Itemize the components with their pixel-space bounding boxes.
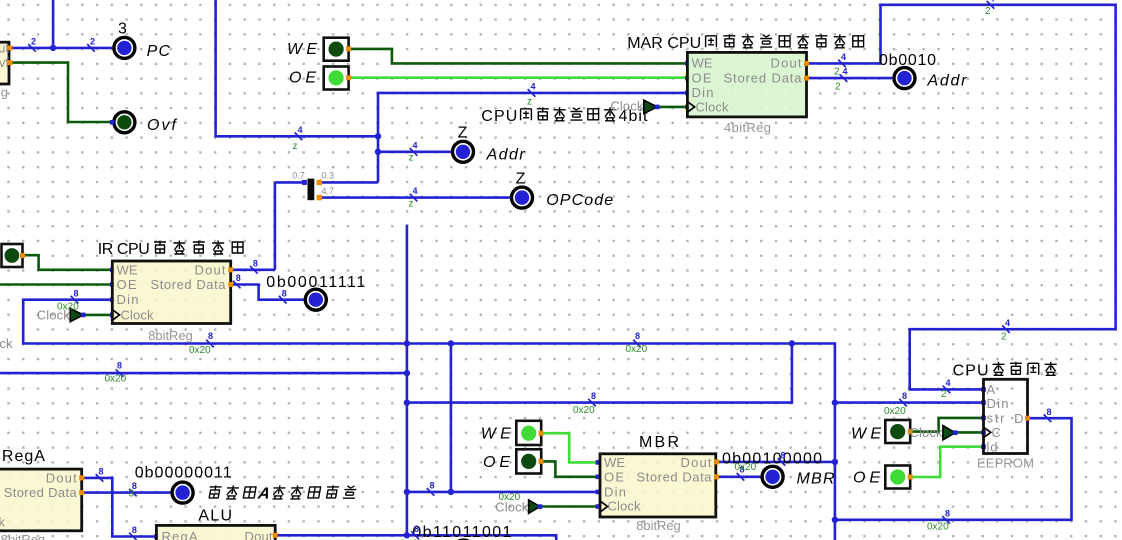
- register MBR: [600, 454, 719, 533]
- splitter: [292, 171, 334, 201]
- svg-text:2: 2: [985, 6, 991, 17]
- svg-text:8: 8: [98, 467, 103, 477]
- svg-text:8: 8: [117, 361, 122, 371]
- wire: splitter root: [275, 181, 305, 184]
- svg-text:2: 2: [1001, 332, 1007, 343]
- probe Ovf: [110, 112, 135, 133]
- probe OPCode: [512, 187, 533, 208]
- svg-text:Dout: Dout: [771, 56, 802, 71]
- svg-text:0b0010: 0b0010: [879, 52, 936, 69]
- svg-text:Dout: Dout: [245, 529, 273, 540]
- svg-text:0.3: 0.3: [322, 171, 335, 181]
- svg-text:Din: Din: [987, 396, 1009, 411]
- svg-text:4: 4: [297, 125, 302, 135]
- width marker 4 on MAR Dout wire: [834, 52, 846, 78]
- svg-text:Dout: Dout: [46, 470, 77, 485]
- node: junction at 406.9,491.9: [404, 489, 410, 495]
- button WE (EEPROM): [885, 420, 912, 443]
- width marker 4 on MAR Din wire: [527, 82, 536, 108]
- wire: PC register Dout to PC probe: [10, 47, 112, 50]
- svg-text:4: 4: [989, 0, 994, 3]
- svg-text:0x20: 0x20: [189, 345, 211, 356]
- register MAR: [687, 52, 809, 134]
- svg-text:MAR CPU: MAR CPU: [627, 35, 701, 52]
- svg-text:Clock: Clock: [0, 336, 13, 351]
- button WE (top, MAR): [324, 38, 351, 61]
- width marker 8 on MBR Din wire: [427, 481, 435, 496]
- svg-text:0x20: 0x20: [735, 462, 757, 473]
- svg-text:4: 4: [412, 186, 417, 196]
- wire: IR Stored Data to probe: [231, 285, 304, 300]
- svg-text:4.7: 4.7: [322, 186, 335, 196]
- svg-text:0x20: 0x20: [927, 522, 949, 533]
- width marker 8 on RegA SD wire: [129, 481, 137, 499]
- wire: MBR clock: [540, 505, 598, 508]
- wire: RegA Dout to ALU input: [82, 478, 157, 537]
- svg-text:g: g: [1, 85, 8, 100]
- svg-text:0x20: 0x20: [573, 405, 595, 416]
- svg-text:Addr: Addr: [486, 147, 526, 164]
- svg-text:8: 8: [635, 331, 640, 341]
- node: junction at 834.9,461.9: [832, 459, 838, 465]
- width marker 8 on EEPROM D wire: [1044, 407, 1052, 422]
- svg-text:CPU: CPU: [953, 363, 989, 380]
- svg-text:0b11011001: 0b11011001: [412, 524, 511, 540]
- probe MAR Addr output: [894, 68, 915, 89]
- svg-text:0x20: 0x20: [499, 492, 521, 503]
- width marker 8 on IR Dout wire: [250, 258, 258, 273]
- EEPROM block: [977, 379, 1034, 470]
- svg-text:8: 8: [208, 331, 213, 341]
- svg-text:Clock: Clock: [121, 307, 155, 322]
- button OE (EEPROM): [885, 466, 912, 489]
- svg-text:Clock: Clock: [0, 515, 6, 530]
- width marker 8 on IR SD wire: [233, 273, 241, 288]
- width marker 4 on y136 wire: [293, 125, 303, 152]
- probe MBR: [762, 466, 783, 487]
- width marker 4 on Addr wire: [409, 140, 418, 163]
- width marker 8 on bus y373: [105, 361, 127, 385]
- svg-text:Clock: Clock: [910, 425, 944, 440]
- clock (MAR): [610, 98, 659, 113]
- svg-text:8: 8: [902, 391, 907, 401]
- svg-text:Clock: Clock: [610, 98, 644, 113]
- wire: vertical into PC net from top edge: [52, 0, 55, 48]
- wire: IR Din loop to data bus H1: [23, 300, 835, 540]
- wire: MBR WE button: [541, 433, 598, 462]
- svg-text:3: 3: [129, 489, 135, 500]
- svg-text:2: 2: [941, 389, 947, 400]
- svg-text:ALU: ALU: [198, 508, 232, 525]
- wire: EEPROM WE button to str: [910, 418, 983, 432]
- svg-text:EEPROM: EEPROM: [977, 456, 1034, 471]
- probe IR output: [305, 289, 326, 310]
- svg-text:z: z: [409, 153, 414, 164]
- svg-text:PC: PC: [147, 43, 171, 60]
- wire: MBR Stored Data to probe: [717, 475, 761, 478]
- label: RegA test output (CJK italic): [207, 485, 357, 503]
- svg-text:WE: WE: [117, 262, 138, 277]
- label: EEPROM title: [953, 362, 1057, 380]
- svg-text:MBR: MBR: [797, 471, 835, 488]
- register RegA (partial at left edge): [0, 469, 84, 540]
- svg-text:IR CPU: IR CPU: [98, 241, 150, 258]
- svg-text:0b00000011: 0b00000011: [135, 465, 232, 482]
- svg-text:8: 8: [414, 524, 419, 534]
- svg-text:2: 2: [31, 37, 36, 47]
- node: junction at 378,136.3: [375, 133, 381, 139]
- wire: splitter out1 to OPCode probe: [320, 196, 510, 199]
- width marker 4 on y329 wire: [1001, 318, 1010, 343]
- svg-text:8bitReg: 8bitReg: [636, 518, 681, 533]
- width marker 8 on ALU out wire: [400, 524, 422, 540]
- svg-text:8: 8: [429, 481, 434, 491]
- node: junction on PC wire: [50, 45, 56, 51]
- width marker 4 on top wire: [985, 0, 995, 17]
- svg-text:WE: WE: [604, 455, 625, 470]
- wire: PC register Ovf to Ovf probe: [10, 63, 112, 122]
- svg-text:0x20: 0x20: [626, 344, 648, 355]
- svg-text:WE: WE: [692, 56, 713, 71]
- button WE (MBR): [516, 421, 543, 445]
- wire: splitter out0 to vertical: [320, 181, 378, 184]
- svg-text:0x20: 0x20: [105, 374, 127, 385]
- wire: MAR clock: [657, 106, 687, 109]
- node: junction at 791.9,343.5: [789, 340, 795, 346]
- wire: vertical B: [450, 344, 453, 492]
- node: junction at 450.9,491.9: [448, 489, 454, 495]
- svg-text:4: 4: [945, 378, 950, 388]
- wire: EEPROM OE button to ld: [910, 447, 983, 477]
- width marker 8 on y402 wire: [573, 391, 596, 416]
- svg-text:Ovf: Ovf: [147, 117, 178, 134]
- clock (IR): [37, 308, 86, 323]
- svg-text:z: z: [293, 141, 298, 152]
- svg-text:2: 2: [90, 37, 95, 47]
- wire: IR Dout: [231, 268, 275, 271]
- wire: splitter root vertical to IR Dout: [274, 182, 277, 269]
- wire: MBR Dout to bus: [717, 461, 835, 464]
- wire: EEPROM D output loop: [835, 418, 1072, 520]
- svg-text:D: D: [1014, 411, 1023, 426]
- wire: ALU Dout to probe and down: [275, 535, 556, 540]
- wire: vertical bus A: [406, 225, 409, 536]
- svg-text:4bitReg: 4bitReg: [724, 120, 771, 135]
- button OE (top, MAR): [324, 67, 351, 90]
- node: junction at 834.9,519.8: [832, 517, 838, 523]
- label: MAR title: [627, 34, 864, 52]
- svg-text:Din: Din: [604, 485, 626, 500]
- width marker 2 on PC wire (x32): [28, 37, 36, 52]
- svg-text:0.7: 0.7: [292, 171, 305, 181]
- node: junction at 450.9,343.5: [448, 340, 454, 346]
- width marker 8 on IR SD wire part2: [279, 288, 287, 303]
- node: junction at 406.9,343.5: [404, 340, 410, 346]
- svg-text:8: 8: [780, 451, 785, 461]
- wire: to Addr probe: [378, 151, 451, 154]
- svg-text:Addr: Addr: [927, 73, 968, 90]
- svg-text:8: 8: [253, 258, 258, 268]
- width marker 4 on OPCode wire: [409, 186, 418, 209]
- width marker 4 on MAR SD wire: [835, 67, 848, 93]
- width marker 4 on EEPROM A wire: [941, 378, 951, 400]
- clock (MBR): [495, 499, 542, 514]
- svg-text:A: A: [987, 382, 996, 397]
- label: CPU internal address bus 4bit: [481, 107, 648, 125]
- width marker 8 on MBR Dout wire: [778, 451, 786, 466]
- svg-text:0x20: 0x20: [884, 406, 906, 417]
- wire: horizontal from A jog up at 791.9: [407, 344, 792, 403]
- width marker 8 on y519 wire: [927, 508, 950, 532]
- svg-text:Z: Z: [516, 171, 526, 188]
- button OE (MBR): [516, 449, 543, 473]
- svg-text:C: C: [992, 425, 1001, 440]
- wire: MBR OE button: [541, 461, 598, 476]
- svg-text:Clock: Clock: [608, 499, 642, 514]
- svg-text:Stored Data: Stored Data: [724, 70, 803, 85]
- svg-text:Stored Data: Stored Data: [151, 277, 227, 292]
- node: junction at 378,151.8: [375, 149, 381, 155]
- wire: vertical from top edge to MAR Din feed: [216, 0, 378, 136]
- svg-text:Z: Z: [458, 125, 468, 142]
- wire: RegA Stored Data to probe: [82, 491, 171, 494]
- svg-text:8: 8: [132, 525, 137, 535]
- wire: WE button to MAR WE (dark green): [349, 49, 688, 64]
- svg-text:8bitReg: 8bitReg: [148, 328, 193, 343]
- probe Addr (internal bus): [453, 141, 474, 162]
- svg-text:Stored Data: Stored Data: [4, 485, 78, 500]
- wire: MAR Dout loop to EEPROM A: [807, 5, 1116, 390]
- wire: data bus into EEPROM Din: [835, 401, 984, 404]
- node: junction at 406.9,373.1: [404, 370, 410, 376]
- width marker 8 on EEPROM Din wire: [884, 391, 907, 417]
- svg-text:8: 8: [1046, 407, 1051, 417]
- svg-text:2: 2: [835, 81, 841, 92]
- width marker 8 on MBR SD wire: [735, 462, 757, 481]
- pin connection squares: [110, 268, 115, 273]
- width marker 8 on H1 (x637): [626, 331, 648, 355]
- svg-text:2: 2: [834, 67, 840, 78]
- register IR: [112, 261, 233, 343]
- wire: IR clock: [83, 314, 112, 317]
- width marker 8 on IR Din wire: [57, 288, 79, 312]
- width marker 8 on RegA Dout wire: [96, 467, 104, 482]
- svg-text:8: 8: [591, 391, 596, 401]
- svg-text:8: 8: [236, 273, 241, 283]
- svg-text:CPU: CPU: [481, 108, 517, 125]
- wire: bus into A from left edge: [0, 372, 407, 375]
- svg-text:8bitReg: 8bitReg: [1, 532, 46, 540]
- register PC (partial at left edge): [0, 40, 13, 99]
- wire: button to IR WE: [23, 255, 113, 270]
- width marker 2 on PC wire (x91): [87, 37, 95, 52]
- svg-text:8: 8: [282, 288, 287, 298]
- wire: MAR Din feed horizontal and vertical to splitter out0: [378, 93, 687, 182]
- node: junction at 406.9,535.3: [404, 532, 410, 538]
- svg-text:MBR: MBR: [639, 434, 679, 451]
- svg-text:8: 8: [945, 508, 950, 518]
- wire: EEPROM clock to C: [955, 431, 983, 434]
- svg-text:8: 8: [73, 288, 78, 298]
- button (IR WE source): [2, 244, 26, 267]
- svg-text:4: 4: [841, 52, 846, 62]
- svg-text:Stored Data: Stored Data: [637, 470, 713, 485]
- svg-text:4: 4: [412, 140, 417, 150]
- width marker 8 on RegA-ALU wire: [129, 525, 137, 540]
- svg-text:RegA: RegA: [2, 448, 45, 465]
- svg-text:str: str: [987, 410, 1006, 425]
- svg-text:RegA: RegA: [162, 529, 198, 540]
- clock (EEPROM): [910, 425, 958, 440]
- svg-text:4: 4: [842, 67, 847, 77]
- wire: MAR Stored Data to Addr probe: [807, 77, 893, 80]
- svg-text:3: 3: [118, 21, 127, 38]
- wire: IR OE from left edge: [0, 283, 112, 286]
- probe RegA: [172, 482, 193, 503]
- svg-text:4: 4: [530, 82, 535, 92]
- node: junction at 834.9,402.6: [832, 399, 838, 405]
- node: junction at 406.9,402.6: [404, 399, 410, 405]
- svg-text:4: 4: [1005, 318, 1010, 328]
- label: IR title: [98, 241, 244, 259]
- ALU block (partial at bottom): [156, 525, 277, 540]
- svg-text:Dout: Dout: [195, 262, 226, 277]
- wire: OE button to MAR OE (bright green): [349, 76, 688, 79]
- svg-text:Din: Din: [117, 292, 139, 307]
- svg-text:ld: ld: [987, 439, 998, 454]
- svg-text:Din: Din: [692, 85, 714, 100]
- probe PC: [114, 37, 135, 58]
- svg-text:z: z: [527, 97, 532, 108]
- wire: MBR Din: [407, 491, 598, 494]
- svg-text:Dout: Dout: [681, 455, 712, 470]
- svg-text:z: z: [409, 199, 414, 210]
- svg-text:0x20: 0x20: [57, 302, 79, 313]
- width marker 8 on H1 (x210): [189, 331, 214, 356]
- svg-text:Clock: Clock: [696, 100, 730, 115]
